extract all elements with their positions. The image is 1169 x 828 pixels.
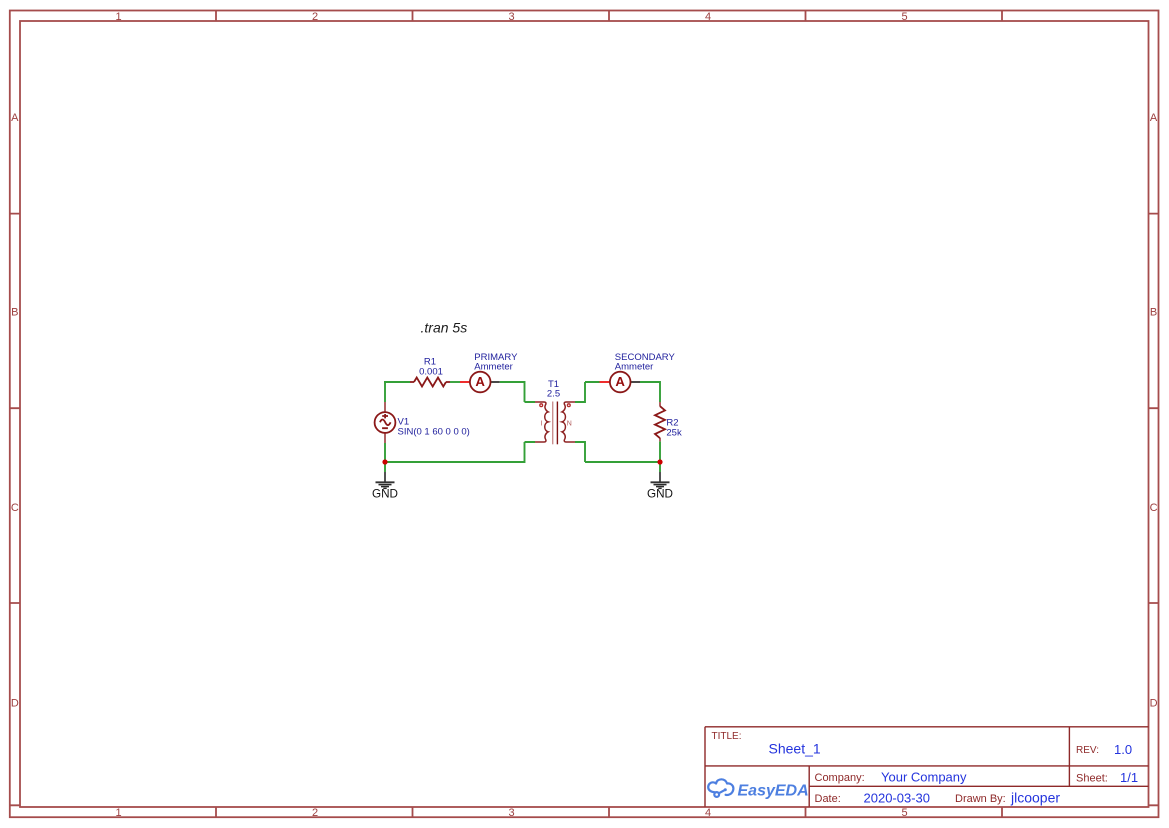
wire: GND stubs [385,462,660,472]
svg-text:25k: 25k [666,428,682,439]
junction node at R2/GND [657,459,662,464]
svg-text:jlcooper: jlcooper [1010,790,1060,806]
wire net1: V1 top to R1 [384,382,410,402]
junction node at V1/GND [382,459,387,464]
wire net4: ammeter to R2 [640,381,660,402]
resistor R2 [655,402,682,441]
ammeter SECONDARY (U2) [600,352,676,392]
svg-text:3: 3 [508,807,514,819]
svg-text:A: A [475,374,485,389]
transformer T1 [535,379,575,444]
svg-text:2.5: 2.5 [547,389,560,400]
svg-text:R2: R2 [666,417,678,428]
svg-text:D: D [1150,698,1158,710]
wire net3: T1 secondary top to SECONDARY ammeter [575,382,600,403]
svg-text:1: 1 [115,807,121,819]
ground GND (right) [647,472,673,501]
svg-text:A: A [1150,112,1158,124]
svg-text:D: D [11,698,19,710]
svg-text:Sheet_1: Sheet_1 [769,741,821,757]
svg-text:C: C [1150,502,1158,514]
svg-text:.tran 5s: .tran 5s [421,320,468,336]
wire net0: bottom wire to T1 primary bottom [385,442,535,463]
svg-text:GND: GND [647,488,673,501]
wire net5: T1 secondary bottom to junction [575,441,660,462]
wire net2: ammeter to T1 primary top [500,381,535,402]
resistor R1 [410,357,450,387]
svg-text:B: B [11,307,18,319]
svg-text:N: N [567,420,572,427]
svg-text:4: 4 [705,11,711,23]
svg-text:Sheet:: Sheet: [1076,773,1108,785]
ground GND (left) [372,472,398,501]
svg-text:EasyEDA: EasyEDA [738,782,809,799]
title block [705,727,1149,807]
wire net0: V1 bottom to junction [384,443,386,462]
spice directive .tran 5s [421,320,468,336]
svg-text:1/1: 1/1 [1120,770,1138,785]
svg-text:Ammeter: Ammeter [474,361,513,372]
svg-text:2: 2 [312,11,318,23]
svg-text:GND: GND [372,488,398,501]
voltage source V1 [375,402,470,443]
svg-text:A: A [11,112,19,124]
svg-text:3: 3 [508,11,514,23]
svg-text:1.0: 1.0 [1114,742,1132,757]
svg-text:SIN(0 1 60 0 0 0): SIN(0 1 60 0 0 0) [398,427,470,438]
EasyEDA logo [708,779,808,799]
svg-text:I: I [541,420,543,427]
ammeter PRIMARY (U1) [460,352,518,392]
svg-text:5: 5 [901,807,907,819]
svg-text:Your Company: Your Company [881,770,967,785]
svg-text:A: A [615,374,625,389]
svg-text:Ammeter: Ammeter [615,362,654,373]
svg-text:TITLE:: TITLE: [712,731,742,742]
svg-text:4: 4 [705,807,711,819]
svg-text:1: 1 [115,11,121,23]
svg-text:Date:: Date: [815,793,841,805]
svg-text:2020-03-30: 2020-03-30 [864,791,931,806]
svg-text:Company:: Company: [815,772,865,784]
svg-text:2: 2 [312,807,318,819]
svg-text:C: C [11,502,19,514]
svg-text:B: B [1150,307,1157,319]
svg-text:5: 5 [901,11,907,23]
wire net1: R1 to PRIMARY ammeter [450,381,460,383]
svg-text:Drawn By:: Drawn By: [955,793,1006,805]
svg-text:REV:: REV: [1076,745,1099,756]
svg-text:0.001: 0.001 [419,366,443,377]
